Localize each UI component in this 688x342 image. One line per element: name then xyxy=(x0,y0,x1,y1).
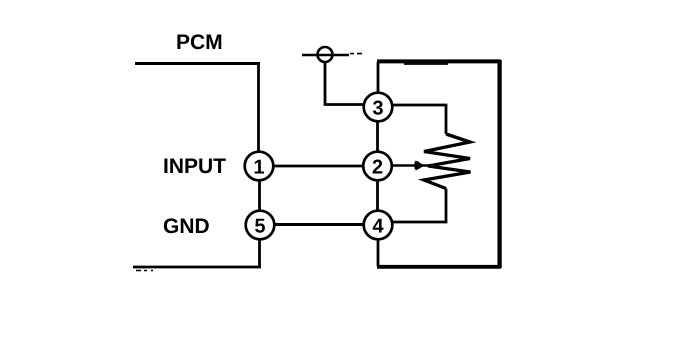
scan artifact under housing top line xyxy=(404,63,448,65)
wire pin3 to resistor top xyxy=(392,105,446,134)
pin 3 xyxy=(364,93,393,122)
pin 5 xyxy=(246,211,275,240)
PCM box top wire xyxy=(135,62,260,65)
label INPUT xyxy=(164,159,225,174)
resistor (sensor element) xyxy=(424,134,471,189)
power supply symbol xyxy=(302,47,349,62)
wire resistor bottom to pin4 xyxy=(392,189,446,223)
pin 2 xyxy=(363,152,392,181)
wire pin5 to PCM bottom xyxy=(258,239,261,267)
label PCM xyxy=(177,34,221,49)
sensor housing box bottom xyxy=(377,265,501,269)
PCM box right wire xyxy=(257,62,260,152)
label GND xyxy=(164,218,209,233)
wire pin1 to pin2 xyxy=(274,165,363,168)
pin 1 xyxy=(245,152,274,181)
wire pin4 down to housing bottom xyxy=(377,239,380,266)
sensor housing box top xyxy=(377,59,501,63)
scan artifact dashes at PCM bottom line left xyxy=(136,270,153,272)
scan artifact dashes right of power line xyxy=(350,53,362,55)
wire pin2 to pin4 xyxy=(376,180,379,211)
PCM box bottom wire xyxy=(133,266,261,269)
wire power to pin3 xyxy=(325,62,363,105)
wire pin3 up to housing top xyxy=(377,62,380,93)
pin 4 xyxy=(364,211,393,240)
wire pin3 to pin2 xyxy=(376,121,379,152)
wiper arrow from pin 2 xyxy=(392,160,430,170)
wire pin5 to pin4 xyxy=(275,223,364,226)
sensor housing box right xyxy=(497,60,501,268)
wire pin1 to pin5 xyxy=(258,180,261,211)
